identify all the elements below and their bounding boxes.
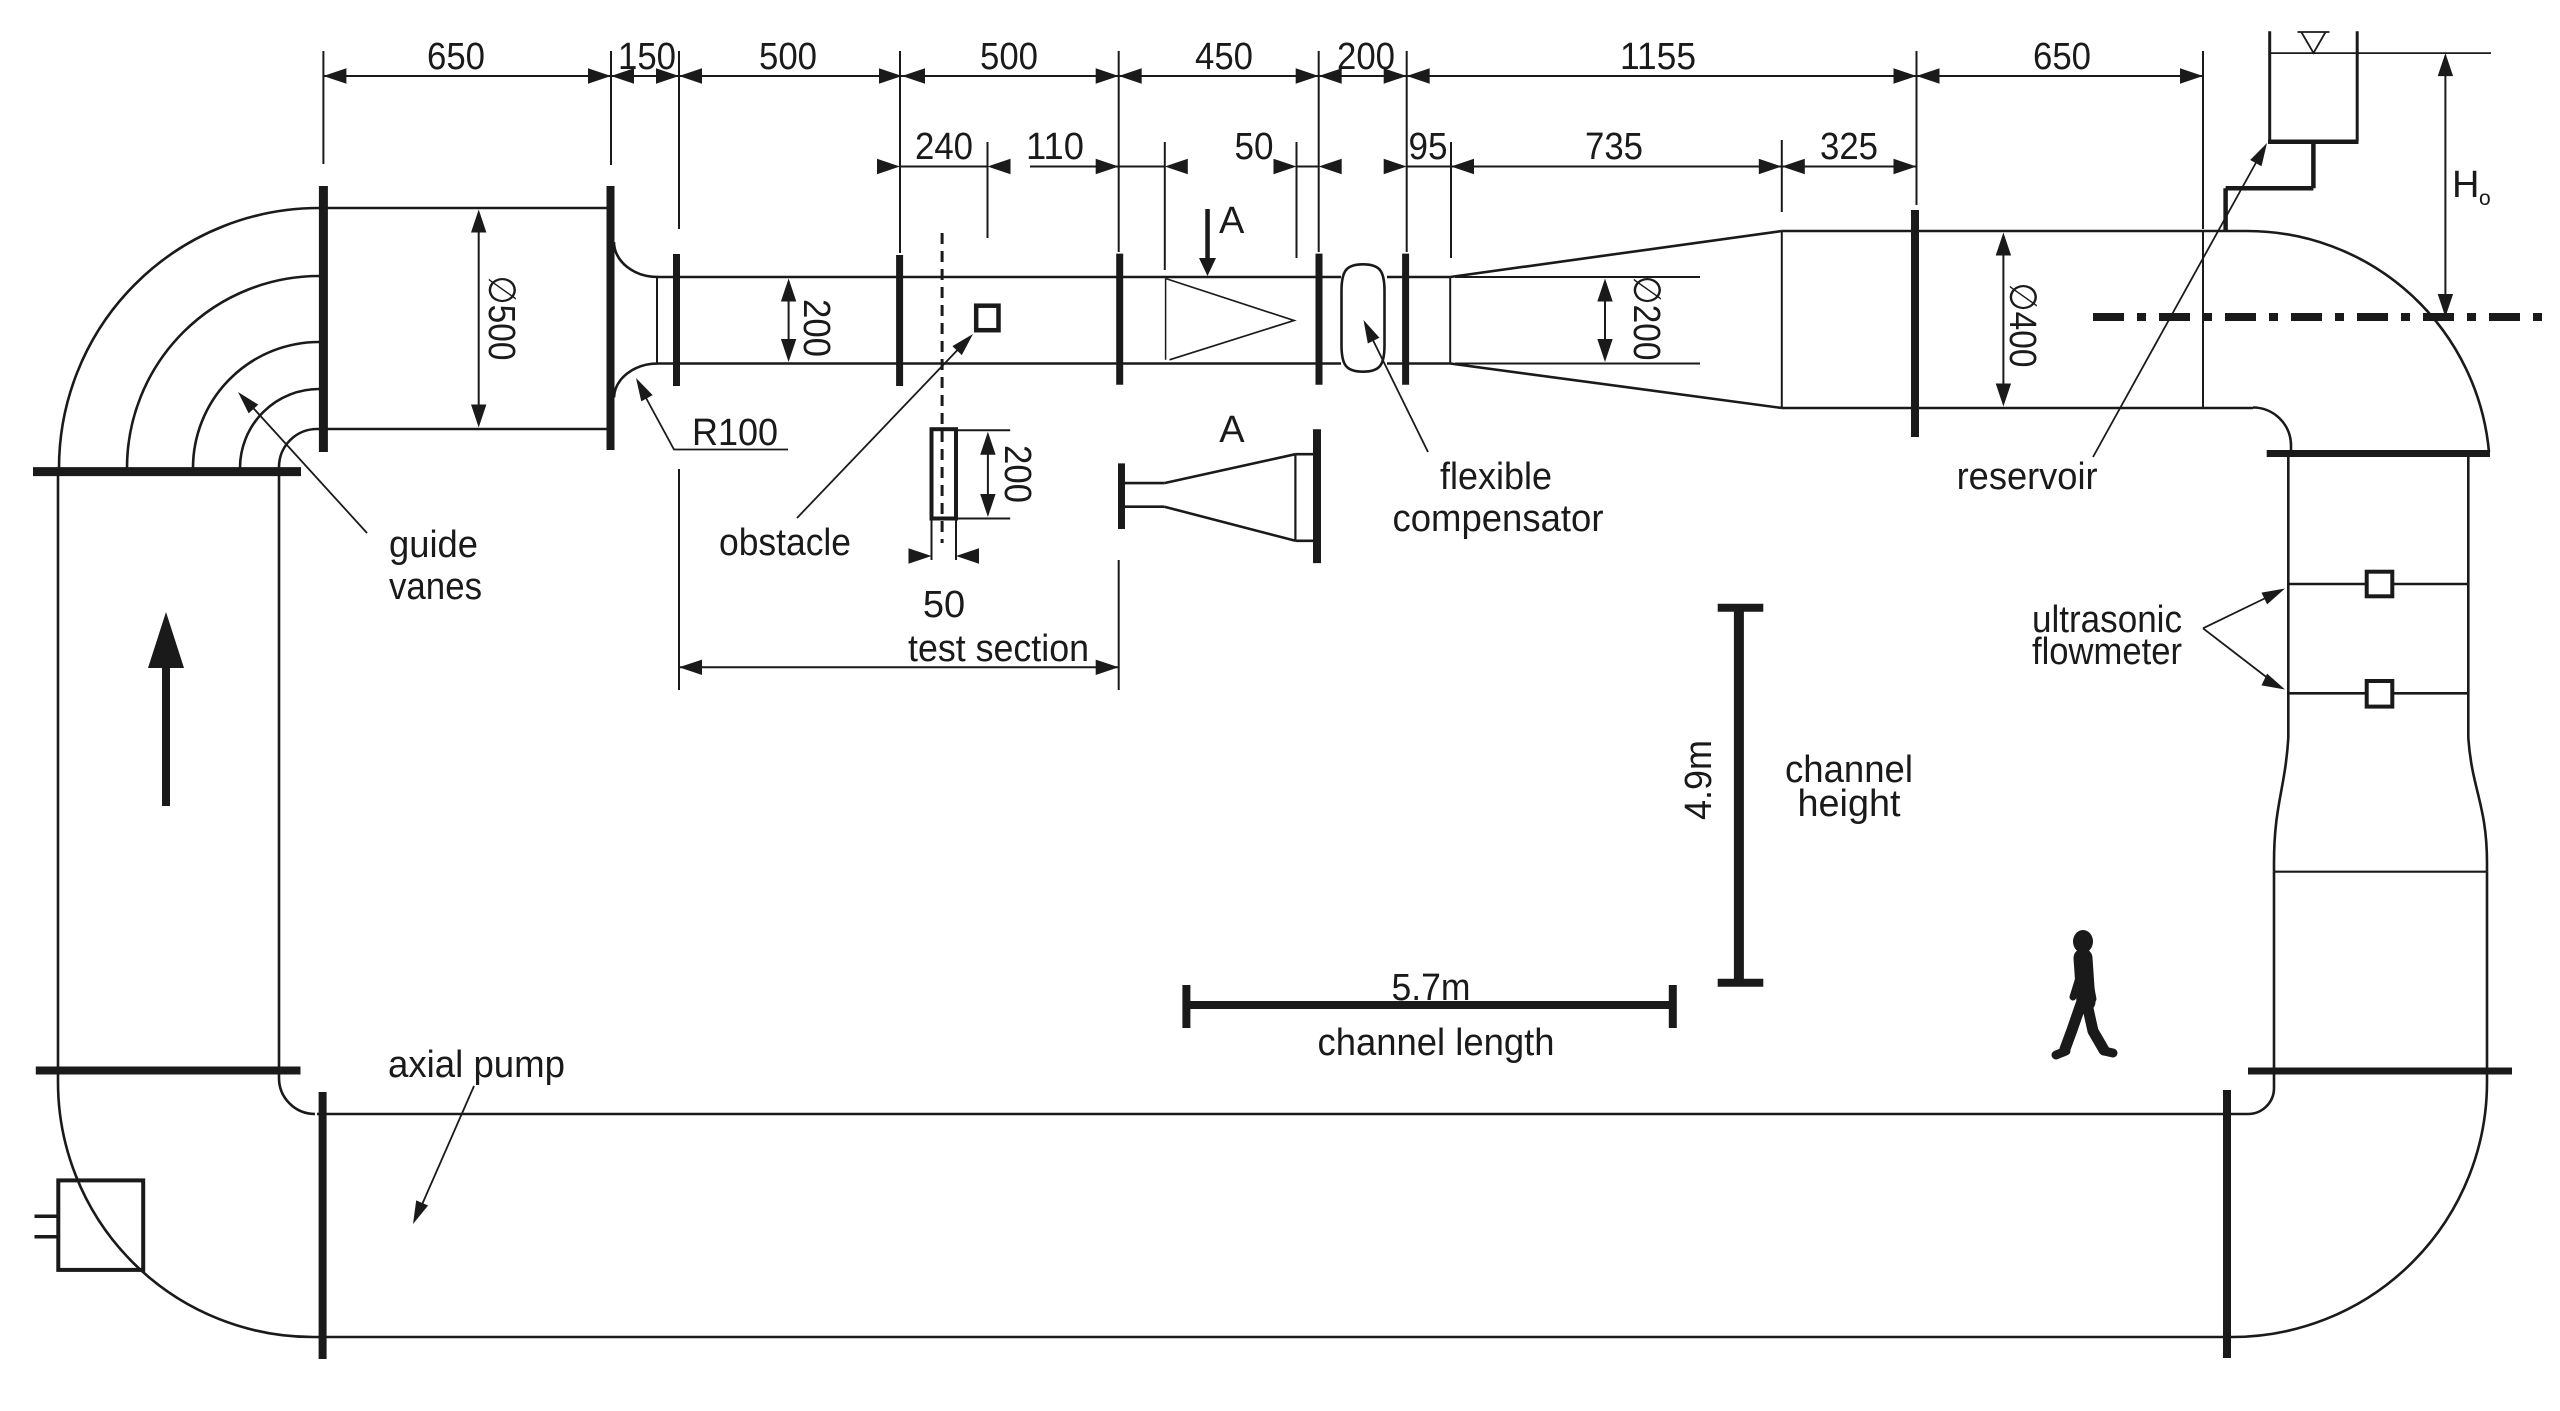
flange left pipe top [33,467,301,476]
svg-text:95: 95 [1409,126,1448,168]
diffuser exit joint line [1781,231,1783,408]
ultrasonic flowmeter fork leaders [2203,592,2278,686]
top-left bend inner fillet [279,429,317,467]
svg-text:channel length: channel length [1318,1022,1555,1064]
diffuser cone bottom wall [1450,364,1782,409]
ultrasonic flowmeter measuring line lower [2288,692,2468,695]
standpipe step horizontal [2226,186,2314,191]
reservoir right wall [2356,31,2359,141]
flow direction arrow in left pipe [148,612,184,806]
Ho dimension [2444,56,2446,314]
svg-text:flowmeter: flowmeter [2032,631,2182,673]
svg-text:200: 200 [996,445,1038,503]
guide vane arc 2 [193,342,319,468]
svg-text:H: H [2452,164,2479,206]
bottom pipe top wall [317,1113,2248,1116]
svg-text:735: 735 [1585,126,1643,168]
svg-text:test section: test section [908,628,1089,670]
test pipe top wall [657,276,1450,279]
nozzle cone triangle in pipe [1166,279,1294,360]
left vertical pipe right wall [278,467,281,1078]
ext line x1318.7 [1318,51,1320,252]
dim row2 segment 325 [1782,166,1917,168]
ext line x611 [610,51,612,165]
nozzle section right flange [1313,429,1321,563]
tick x1451 [1450,142,1452,258]
reservoir bottom [2268,139,2359,144]
svg-text:50: 50 [923,584,965,626]
section arrow A upper [1199,209,1216,276]
row1 dim texts [427,36,2091,78]
axial pump leader [417,1086,474,1216]
water level symbol triangle [2298,32,2330,53]
flange right leg bottom [2248,1068,2512,1075]
svg-text:650: 650 [427,36,485,78]
flowmeter duct right wall [2467,457,2470,738]
nozzle section ring walls [1295,454,1313,541]
axial pump shaft stub lower [35,1235,59,1239]
axial pump motor box [58,1180,143,1270]
dim row2 segment 95 [1407,166,1451,168]
top-right bend outer wall arc [2247,231,2489,452]
guide vanes leader [245,399,367,533]
svg-text:200: 200 [1337,36,1395,78]
ultrasonic flowmeter sensor lower [2367,681,2393,707]
svg-text:∅400: ∅400 [2001,283,2043,368]
svg-text:vanes: vanes [389,566,482,608]
svg-text:A: A [1219,409,1245,451]
channel length 5.7m bar [1186,985,1672,1028]
row1 arrowheads [323,68,2203,83]
return pipe d400 top wall [1782,230,2247,233]
obstacle leader [797,339,968,518]
svg-text:∅500: ∅500 [480,276,522,361]
ultrasonic flowmeter sensor upper [2367,572,2393,597]
flange bottom pipe left [319,1092,327,1359]
svg-text:200: 200 [795,299,837,357]
ext line x679 [678,51,680,229]
ext line x2203 [2202,51,2204,229]
ext line x1916.5 [1916,51,1918,205]
nozzle section cone [1164,454,1295,541]
svg-text:325: 325 [1820,126,1878,168]
flowmeter duct left wall [2288,446,2291,739]
row2 arrowheads [877,159,1917,174]
flange test pipe 3 [1116,254,1123,385]
obstacle plate 200 dim extension lines [956,429,1010,431]
flange test pipe 2 [896,255,903,386]
svg-text:500: 500 [759,36,817,78]
svg-text:4.9m: 4.9m [1678,740,1720,820]
ext line x1406.7 [1406,51,1408,252]
obstacle plate 50 dim extension lines [931,519,933,561]
return pipe end joint line [2202,231,2204,408]
d400 diameter dimension [2002,255,2004,385]
flexible compensator leader [1367,328,1428,452]
svg-text:110: 110 [1026,126,1084,168]
nozzle cone entrance edge [1165,279,1167,360]
bottom-left bend outer wall arc [58,1082,313,1337]
R100 leader with underline [639,385,788,450]
settling chamber top wall [319,207,610,210]
ultrasonic flowmeter measuring line upper [2288,583,2468,586]
row2 dim texts [915,126,1878,168]
tick x1164.8 [1164,142,1166,270]
obstacle section view plate [932,429,1011,560]
dim row2 segment 735 [1451,166,1782,168]
svg-text:axial pump: axial pump [388,1044,565,1086]
dim row2 segment 50 [1297,166,1319,168]
reservoir water level line [2270,52,2491,54]
right leg expansion right wall [2468,738,2487,872]
svg-text:o: o [2479,187,2491,210]
top-left bend outer wall arc [59,208,319,468]
reservoir leader [2093,150,2263,457]
flange left pipe bottom [36,1067,301,1075]
d500 diameter dimension [478,232,480,405]
svg-text:reservoir: reservoir [1957,456,2098,498]
svg-text:compensator: compensator [1393,498,1604,540]
diffuser cone top wall [1450,231,1782,277]
right leg expansion joint line [2274,871,2487,873]
obstacle hidden centerline dashed [941,233,944,543]
right leg lower box left wall [2273,872,2276,1088]
svg-text:5.7m: 5.7m [1392,967,1471,1009]
flange bottom pipe right [2223,1090,2231,1358]
svg-text:500: 500 [980,36,1038,78]
flange d400 pipe [1911,210,1919,437]
right leg expansion left wall [2274,738,2288,872]
top-right bend inner fillet [2253,408,2291,446]
flexible compensator barrel [1342,264,1385,371]
nozzle section cone base edge [1294,454,1296,541]
contraction bell lower curve [614,363,658,397]
nozzle section A-A left flange [1122,429,1318,563]
svg-text:240: 240 [915,126,973,168]
settling chamber bottom wall [317,428,610,431]
svg-text:flexible: flexible [1440,456,1552,498]
diffuser inlet joint line [1449,277,1451,364]
svg-text:guide: guide [389,524,478,566]
contraction exit joint line [656,277,658,364]
flange settling chamber left [319,186,328,452]
svg-text:∅200: ∅200 [1625,276,1667,361]
bottom-right bend outer wall arc [2232,1082,2487,1337]
svg-text:650: 650 [2033,36,2091,78]
ext line x1118.7 [1118,51,1120,252]
test pipe bottom wall [657,362,1450,365]
bottom pipe bottom wall [313,1336,2232,1339]
ext line x323 [322,51,324,164]
bottom-left bend inner fillet [279,1078,315,1114]
flange test pipe 1 [673,254,680,386]
tick x987.5 [987,142,989,238]
flange settling chamber right [607,186,615,450]
guide vane arc 3 [240,389,319,468]
nozzle section throat tube [1125,483,1164,507]
svg-text:A: A [1219,200,1245,242]
obstacle square in pipe [976,306,998,331]
dim row2 segment 110 [1030,166,1165,168]
contraction bell upper curve R100 [614,242,658,277]
obstacle plate 200 dim line [987,452,989,497]
bottom-right bend inner fillet [2248,1088,2274,1114]
flange before compensator [1316,254,1323,385]
svg-text:50: 50 [1235,126,1274,168]
tick x1781.8 [1781,140,1783,212]
right leg lower box right wall [2486,872,2489,1082]
person silhouette [2056,930,2113,1055]
dim row2 segment 240 [900,166,988,168]
svg-text:obstacle: obstacle [719,522,851,564]
standpipe step lower vertical [2223,188,2228,232]
test section dimension [679,469,1119,690]
svg-text:R100: R100 [692,412,778,454]
standpipe step upper vertical [2311,142,2316,189]
flange after compensator [1402,254,1409,385]
svg-text:1155: 1155 [1620,36,1696,78]
tick x1296.5 [1296,142,1298,258]
d200 diameter dimension with extension lines [1455,277,1700,364]
svg-text:height: height [1798,783,1901,825]
flange right leg top [2267,450,2490,457]
svg-text:150: 150 [618,36,676,78]
guide vane arc 1 [127,276,319,468]
axial pump shaft stub upper [35,1215,59,1219]
dim row1 line [323,75,2203,77]
pipe centerline dash-dot [2093,313,2554,321]
reservoir left wall [2268,31,2271,142]
ext line x900 [899,51,901,253]
200 pipe height dimension [788,300,790,340]
channel height 4.9m bar [1718,608,1764,983]
return pipe d400 bottom wall [1782,407,2253,410]
svg-text:450: 450 [1195,36,1253,78]
left vertical pipe left wall [57,468,60,1082]
